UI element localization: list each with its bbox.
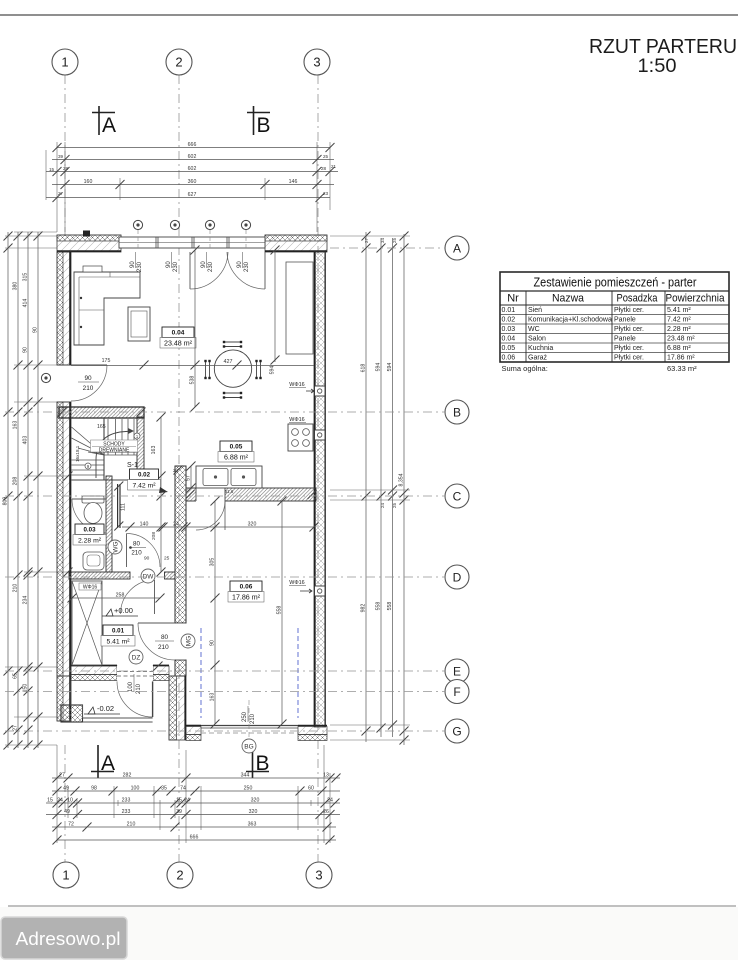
sideboard right wall [286,262,313,354]
level -0.02 [88,707,95,714]
svg-text:160: 160 [84,179,93,185]
svg-text:3: 3 [313,55,320,70]
svg-text:982: 982 [360,604,366,613]
svg-text:150: 150 [22,684,28,693]
stair right wall [137,417,144,469]
wardrobe label WF16 [79,583,101,590]
wardrobe with X [72,581,102,665]
svg-text:5.41 m²: 5.41 m² [667,307,691,314]
svg-text:163: 163 [209,693,215,702]
svg-text:258: 258 [116,592,125,598]
section marker B top [253,106,255,135]
svg-text:618: 618 [360,364,366,373]
svg-text:2.28 m²: 2.28 m² [667,326,691,333]
top dim row 666 [57,147,330,149]
svg-text:1: 1 [61,55,68,70]
grid axis 3 vertical dash line [317,75,319,862]
svg-text:0.02: 0.02 [138,472,151,479]
top dim row 627 [46,197,330,199]
room label 0.01 [101,625,135,646]
stairs walking line with arrow [96,431,132,478]
room label 0.04 [160,327,196,348]
top dim row 160/360/146 [52,184,334,186]
bottom dim row 233/320 [46,802,340,804]
svg-text:Płytki cer.: Płytki cer. [614,355,644,362]
svg-text:A: A [101,752,115,775]
svg-text:Garaż: Garaż [528,355,548,362]
svg-text:1: 1 [62,868,69,883]
svg-text:60: 60 [308,785,314,791]
WC/corridor wall [106,476,112,572]
svg-text:24: 24 [380,503,385,508]
svg-text:100: 100 [131,785,140,791]
svg-text:17.86 m²: 17.86 m² [232,593,261,601]
MG circle [181,634,195,648]
exterior wall top-right [265,235,327,252]
svg-text:594: 594 [269,366,275,375]
svg-text:282: 282 [123,772,132,778]
svg-text:315: 315 [22,273,28,282]
sien bottom wall left [71,666,117,675]
svg-text:7.42 m²: 7.42 m² [132,482,156,489]
svg-text:23: 23 [323,191,329,196]
grid circle 1 bottom [53,862,79,888]
svg-text:146: 146 [289,179,298,185]
watermark Adresowo.pl [1,917,127,959]
svg-text:WΦ16: WΦ16 [83,585,97,591]
chairs [224,341,241,343]
svg-text:15: 15 [176,797,182,803]
garage front-left exterior wall [169,676,186,740]
svg-text:WG: WG [112,541,119,552]
svg-text:Panele: Panele [614,317,636,324]
corridor/sien wall [69,572,130,579]
bottom dim row 27/282/344/13 [52,777,340,779]
svg-text:5.41 m²: 5.41 m² [106,638,130,645]
svg-text:2.28 m²: 2.28 m² [78,537,102,544]
svg-text:15: 15 [47,797,53,803]
svg-text:230: 230 [173,261,179,272]
room label 0.02 [128,469,161,490]
garage dim 320 [186,526,314,528]
svg-text:28: 28 [63,166,69,171]
svg-text:558: 558 [375,602,381,611]
right wall vent box 3 (garage) [315,586,326,596]
svg-text:24: 24 [184,797,190,803]
svg-text:163: 163 [12,421,18,430]
top dim row 602 b [46,171,338,173]
svg-text:E: E [453,664,461,678]
exterior wall top-left [57,235,121,252]
svg-text:0.02: 0.02 [502,317,516,324]
svg-text:A: A [102,114,116,137]
svg-text:17.86 m²: 17.86 m² [667,355,695,362]
kitchen bottom wall [186,488,316,501]
svg-text:627: 627 [188,192,197,198]
svg-text:39: 39 [58,154,64,159]
svg-text:0.05: 0.05 [502,345,516,352]
svg-text:809: 809 [2,497,8,506]
svg-text:34: 34 [380,238,385,243]
svg-text:100: 100 [128,681,134,692]
svg-text:B: B [257,114,271,137]
svg-text:Płytki cer.: Płytki cer. [614,345,644,352]
section marker A bottom [97,745,99,778]
table zestawienie [500,272,729,362]
svg-text:49: 49 [63,785,69,791]
svg-text:320: 320 [249,809,258,815]
svg-text:25: 25 [323,154,329,159]
svg-text:Kuchnia: Kuchnia [528,345,553,352]
dining table round [214,350,251,387]
svg-text:MG: MG [185,636,192,646]
svg-text:320: 320 [248,521,257,527]
svg-text:28: 28 [321,166,327,171]
svg-text:G: G [452,724,461,738]
svg-text:23.48 m²: 23.48 m² [667,336,695,343]
svg-text:602: 602 [188,166,197,172]
svg-text:140: 140 [140,521,149,527]
svg-text:0.06: 0.06 [502,355,516,362]
stairs newel line [103,418,105,480]
svg-text:Salon: Salon [528,336,546,343]
WC toilet [82,496,104,503]
exterior wall left porch [57,676,71,721]
DZ circle [129,650,143,664]
svg-text:210: 210 [158,644,169,651]
svg-text:1:50: 1:50 [638,56,677,77]
svg-text:35: 35 [161,785,167,791]
svg-text:210: 210 [127,821,136,827]
dim 258 [72,597,160,599]
svg-text:98: 98 [91,785,97,791]
grid axis 1 vertical dash line [64,75,66,236]
stairs label SCHODY DREWNIANE [91,440,138,452]
svg-text:208: 208 [151,532,157,540]
svg-text:90: 90 [166,261,172,268]
section marker B bottom [252,745,254,778]
svg-text:Zestawienie pomieszczeń - part: Zestawienie pomieszczeń - parter [534,275,698,290]
svg-text:0.06: 0.06 [240,584,253,591]
garage label 0.06 [228,581,264,602]
svg-text:Komunikacja+Kl.schodowa: Komunikacja+Kl.schodowa [528,317,612,324]
svg-text:0.05: 0.05 [230,444,243,451]
svg-text:90: 90 [32,327,38,333]
svg-text:Suma ogólna:: Suma ogólna: [502,364,548,373]
svg-text:234: 234 [22,596,28,605]
svg-text:57: 57 [185,475,191,481]
svg-text:666: 666 [188,142,197,148]
level +0.00 [106,609,113,616]
svg-text:380: 380 [12,282,18,291]
svg-text:DZ: DZ [132,654,141,661]
porch corner block [61,705,83,722]
grid circle 1 top [52,49,78,75]
room label 0.03 [73,524,106,545]
svg-text:25: 25 [392,503,397,508]
exterior wall left upper [57,252,71,365]
svg-text:0.04: 0.04 [172,330,185,337]
svg-text:230: 230 [208,261,214,272]
grid circles A-G right [445,236,469,260]
svg-text:90: 90 [201,261,207,268]
svg-text:305: 305 [209,558,215,567]
grid circle 2 bottom [167,862,193,888]
svg-text:74: 74 [180,785,186,791]
kitchen counter with sinks [196,466,262,488]
svg-text:27: 27 [12,725,18,731]
junction ticks [58,408,67,417]
stairs lower treads [72,459,105,461]
svg-text:2: 2 [175,55,182,70]
svg-text:230: 230 [137,261,143,272]
kitchen label 0.05 [218,441,254,462]
svg-text:90: 90 [144,556,150,562]
WC door arc [72,498,106,500]
svg-text:Płytki cer.: Płytki cer. [614,326,644,333]
interior wall salon/stairs [59,407,144,418]
svg-text:163: 163 [151,446,157,455]
top dimension block extension lines [56,142,58,232]
top dim row 602 a [52,159,334,161]
vent circles above top wall [133,220,142,229]
svg-text:2: 2 [176,868,183,883]
svg-text:90: 90 [209,640,215,646]
svg-text:Panele: Panele [614,336,636,343]
tread number circles [85,463,91,469]
exterior wall left lower [57,402,71,676]
svg-text:24: 24 [173,521,179,527]
entrance door arc DZ [117,681,153,717]
svg-text:320: 320 [251,797,260,803]
dim 140/24 above doors [122,526,186,528]
svg-text:Posadzka: Posadzka [617,293,659,305]
grid circle 3 top [304,49,330,75]
svg-text:210: 210 [136,683,142,694]
svg-text:D: D [453,570,462,584]
door sien-garage leaf+arc [176,623,186,660]
svg-text:363: 363 [248,821,257,827]
svg-text:15: 15 [49,167,55,172]
balcony door leafs + arcs [189,252,191,289]
svg-text:A: A [453,241,461,255]
vent circle left wall [41,373,50,382]
garage door wall left stub [186,727,201,735]
svg-text:6.88 m²: 6.88 m² [224,453,249,461]
svg-text:538: 538 [189,376,195,385]
coffee table [128,307,150,341]
svg-text:230: 230 [244,261,250,272]
grid circle 3 bottom [306,862,332,888]
svg-text:Sień: Sień [528,307,542,314]
bottom dim row 233/320 b [46,814,340,816]
door 90/210 left wall leaf+arc [71,364,107,366]
garage door lines [201,725,298,727]
exterior wall right full [314,252,326,727]
kitchen dim 57 [190,466,192,488]
svg-text:210: 210 [12,584,18,593]
svg-text:0.04: 0.04 [502,336,516,343]
svg-text:-0.02: -0.02 [97,704,114,713]
svg-text:90: 90 [84,375,92,382]
svg-text:24: 24 [57,797,63,803]
svg-text:RZUT PARTERU: RZUT PARTERU [589,35,737,58]
svg-text:3: 3 [315,868,322,883]
svg-text:24: 24 [327,797,333,803]
svg-text:26: 26 [323,809,329,815]
stairs winder fan treads [72,427,105,455]
svg-text:65: 65 [12,673,18,679]
WG circle [108,540,122,554]
svg-text:90: 90 [22,347,28,353]
entrance door gap dashes [117,666,153,681]
svg-text:WΦ16: WΦ16 [289,580,304,586]
bottom dim row 666 [57,839,336,841]
bottom dim row 49/98/100/35/74/250/60 [52,790,340,792]
svg-text:27: 27 [59,772,65,778]
top border line [0,14,738,16]
svg-text:+0.00: +0.00 [114,606,133,615]
left wall door gap lines [57,364,71,366]
svg-text:63.33 m²: 63.33 m² [667,364,697,373]
stove [288,424,313,451]
svg-text:B: B [453,405,461,419]
svg-text:414: 414 [22,299,28,308]
svg-text:0.01: 0.01 [112,628,125,635]
svg-text:24: 24 [173,468,179,473]
svg-text:C: C [453,489,462,503]
svg-text:13: 13 [323,772,329,778]
svg-text:72: 72 [68,821,74,827]
door corridor-sien leaf+arc [154,580,156,614]
corridor vertical dim chain [160,417,162,572]
svg-text:Powierzchnia: Powierzchnia [666,293,726,305]
svg-text:90: 90 [237,261,243,268]
right dim chains [365,232,367,742]
right wall vent box 2 [315,430,326,440]
svg-text:594: 594 [375,363,381,372]
DW circle [141,569,155,583]
sensor black square on top wall [83,231,90,237]
svg-text:233: 233 [122,797,131,803]
door corridor-WC leaf+arc [126,534,128,568]
svg-text:558: 558 [387,602,393,611]
grid circle 2 top [166,49,192,75]
sien bottom wall right [153,666,169,675]
window mullions [155,237,157,248]
svg-text:27: 27 [58,191,64,196]
svg-text:F: F [453,685,460,699]
svg-text:27: 27 [364,238,369,243]
svg-text:165: 165 [97,424,106,430]
left dim block vertical chains [7,232,9,748]
svg-text:WC: WC [528,326,540,333]
porch outline [71,681,83,719]
salon interior dims [71,365,314,367]
svg-text:210: 210 [83,385,94,392]
kitchen-garage door arc [196,501,225,530]
svg-text:Płytki cer.: Płytki cer. [614,307,644,314]
svg-text:BG: BG [244,743,253,750]
svg-text:6.88 m²: 6.88 m² [667,345,691,352]
section marker A top [98,106,100,135]
svg-text:Nr: Nr [507,293,519,305]
svg-text:10: 10 [67,797,73,803]
svg-text:80: 80 [161,634,169,641]
svg-text:25: 25 [164,556,170,562]
garage left wall [175,466,186,623]
svg-text:0.01: 0.01 [502,307,516,314]
svg-text:80: 80 [133,541,140,548]
svg-text:23.48 m²: 23.48 m² [164,339,193,347]
sofa L-shape [74,272,140,345]
garage door wall right stub [298,727,327,735]
bottom separator line [8,905,736,907]
svg-text:344: 344 [241,772,250,778]
svg-text:233: 233 [122,809,131,815]
svg-text:7.42 m²: 7.42 m² [667,317,691,324]
grid lines A-G horizontal [330,247,445,249]
svg-text:Nazwa: Nazwa [552,293,585,305]
BG circle [242,739,256,753]
garage blue dashed lines [200,628,202,718]
stairs bottom edge [72,479,138,481]
svg-text:Adresowo.pl: Adresowo.pl [16,929,121,949]
svg-text:WΦ16: WΦ16 [289,382,304,388]
svg-text:666: 666 [190,834,199,840]
svg-text:594: 594 [387,363,393,372]
svg-text:558: 558 [276,606,282,615]
svg-text:175: 175 [102,358,111,364]
partition 111 line [117,484,119,528]
svg-text:B: B [256,752,270,775]
svg-text:0.03: 0.03 [83,527,96,534]
svg-text:21: 21 [331,164,337,169]
right wall vent box 1 [315,386,326,396]
svg-text:25: 25 [392,238,397,243]
svg-text:210: 210 [250,713,256,724]
left dim horizontal extension lines [5,235,57,237]
svg-text:210: 210 [131,550,142,557]
top window band frame [119,237,265,248]
svg-text:8,354: 8,354 [398,473,404,486]
svg-text:602: 602 [188,154,197,160]
window centre dash lines [137,230,139,250]
svg-text:360: 360 [188,179,197,185]
WC sink [83,552,104,570]
svg-text:16x18,1: 16x18,1 [75,445,80,462]
svg-text:61,6: 61,6 [225,489,234,494]
svg-text:111: 111 [121,503,127,511]
svg-text:90: 90 [130,261,136,268]
garage vertical dim chains [214,501,216,724]
grid axis 2 vertical dash line [178,75,180,862]
svg-text:427: 427 [224,359,233,365]
svg-text:250: 250 [244,785,253,791]
svg-text:49: 49 [64,809,70,815]
svg-text:250: 250 [242,711,248,722]
stairs straight flight treads (vertical) [107,419,109,455]
svg-text:WΦ16: WΦ16 [289,417,304,423]
svg-text:403: 403 [22,436,28,445]
right dim horizontal extension lines [330,235,410,237]
svg-text:S-1: S-1 [127,462,138,469]
svg-text:0.03: 0.03 [502,326,516,333]
svg-text:39: 39 [176,809,182,815]
bottom dim extension lines [56,745,58,843]
svg-text:208: 208 [12,477,18,486]
bottom dim row 72/210/363 [52,826,336,828]
